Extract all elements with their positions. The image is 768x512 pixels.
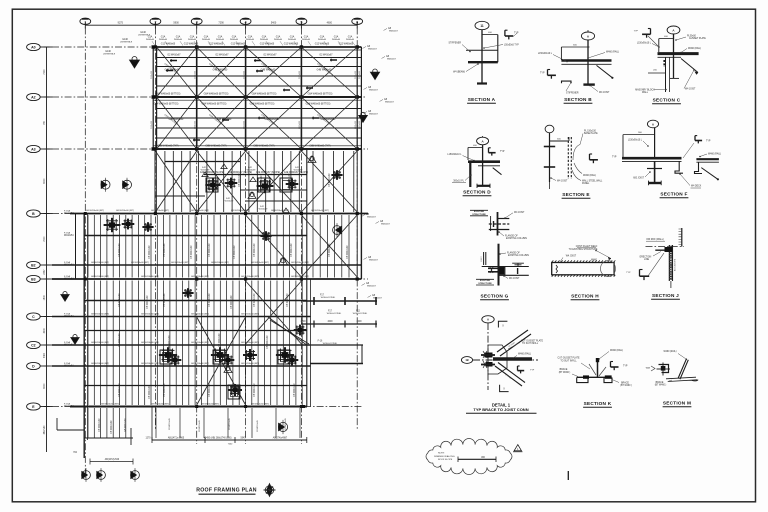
svg-text:A2: A2: [31, 95, 36, 99]
svg-text:7000: 7000: [44, 69, 46, 75]
svg-text:ERECTION: ERECTION: [640, 257, 652, 259]
svg-text:C350x300: C350x300: [355, 71, 357, 79]
svg-text:G2 W410x67: G2 W410x67: [319, 54, 333, 56]
svg-text:W460x67: W460x67: [373, 298, 383, 300]
svg-text:Q450 (AB) 268x2740 (300): Q450 (AB) 268x2740 (300): [204, 437, 231, 440]
svg-text:G8 W410x60 (B/T): G8 W410x60 (B/T): [101, 404, 120, 406]
svg-text:G1A: G1A: [320, 36, 325, 39]
svg-text:7290: 7290: [218, 21, 224, 24]
svg-text:BRACE: BRACE: [560, 368, 568, 371]
svg-text:F8 W310x39: F8 W310x39: [149, 245, 151, 259]
svg-text:G8 W410x60 (B/T): G8 W410x60 (B/T): [291, 262, 310, 264]
svg-text:5943: 5943: [240, 438, 246, 440]
svg-text:W460x60: W460x60: [246, 39, 254, 41]
svg-text:F8 W310x39: F8 W310x39: [164, 243, 166, 257]
svg-text:F8 W310x39: F8 W310x39: [149, 385, 151, 399]
svg-text:G8A W460x60 (B/TTOS): G8A W460x60 (B/TTOS): [202, 103, 227, 106]
svg-text:F8 W310x39: F8 W310x39: [239, 173, 241, 187]
svg-text:EXISTING COLUMN: EXISTING COLUMN: [508, 255, 529, 257]
svg-text:F-15A: F-15A: [64, 209, 70, 212]
svg-text:W410x54: W410x54: [64, 344, 74, 346]
svg-text:F8 W310x39: F8 W310x39: [254, 243, 256, 257]
svg-text:G8 W410x60 (B/T): G8 W410x60 (B/T): [251, 262, 270, 264]
svg-text:F8 W310x39: F8 W310x39: [219, 333, 221, 347]
svg-text:W460x60: W460x60: [216, 39, 224, 41]
svg-text:SECTION A: SECTION A: [468, 97, 496, 102]
svg-text:G8A W460x60 (B/TTOS): G8A W460x60 (B/TTOS): [308, 93, 333, 96]
svg-text:CUT GUSSET PLATE: CUT GUSSET PLATE: [557, 357, 580, 360]
svg-text:LINE: LINE: [644, 259, 650, 261]
svg-text:F8 W310x39: F8 W310x39: [231, 295, 233, 309]
svg-text:F-16: F-16: [318, 341, 323, 343]
svg-text:F8 W310x39: F8 W310x39: [234, 245, 236, 259]
svg-text:G8 W410x60 (B/T): G8 W410x60 (B/T): [91, 314, 110, 316]
svg-text:W460x60: W460x60: [274, 39, 282, 41]
svg-text:W460x67: W460x67: [381, 224, 391, 226]
svg-text:SECTION J: SECTION J: [652, 293, 679, 298]
svg-text:W460x67: W460x67: [369, 260, 379, 262]
svg-text:1270: 1270: [145, 438, 151, 440]
svg-text:SECTION H: SECTION H: [571, 294, 599, 299]
svg-text:W460x67: W460x67: [367, 217, 377, 219]
svg-text:W460 (RAIL): W460 (RAIL): [708, 153, 721, 156]
svg-text:F8 W310x39: F8 W310x39: [329, 173, 331, 187]
svg-text:W460x60: W460x60: [188, 39, 196, 41]
svg-text:AB(1471)x 5965: AB(1471)x 5965: [168, 437, 185, 440]
svg-text:AB(1072)x540: AB(1072)x540: [105, 458, 120, 461]
svg-text:L/STEETBLE: L/STEETBLE: [120, 42, 133, 44]
svg-text:F8 W310x39: F8 W310x39: [257, 419, 259, 431]
svg-text:C350x300: C350x300: [359, 71, 361, 79]
svg-text:TYP: TYP: [646, 368, 651, 370]
svg-text:TYP: TYP: [612, 157, 617, 159]
svg-text:F8 W310x39: F8 W310x39: [239, 385, 241, 399]
svg-text:9275: 9275: [118, 21, 124, 24]
svg-text:6000: 6000: [44, 178, 46, 184]
svg-text:SECTION F: SECTION F: [660, 192, 687, 197]
svg-text:B2: B2: [31, 263, 36, 267]
svg-text:TYP: TYP: [626, 272, 631, 274]
svg-text:W460 (RAIL): W460 (RAIL): [583, 174, 596, 177]
svg-text:W410x54 STEEL: W410x54 STEEL: [353, 313, 368, 315]
svg-text:F8 W310x39: F8 W310x39: [209, 293, 211, 307]
svg-text:G4B W460x60: G4B W460x60: [317, 69, 332, 71]
svg-text:W410x54: W410x54: [64, 316, 74, 318]
svg-text:G1A: G1A: [334, 36, 339, 39]
svg-text:G12 W460x60: G12 W460x60: [161, 44, 176, 46]
svg-text:(BT W460 ): (BT W460 ): [655, 385, 667, 387]
svg-text:A3: A3: [31, 147, 36, 151]
svg-text:F8 W310x39: F8 W310x39: [119, 333, 121, 347]
svg-text:SECTION E: SECTION E: [562, 192, 590, 197]
svg-text:W4 JOIST: W4 JOIST: [509, 278, 520, 280]
svg-text:G8A W460x60 (B/TTOS): G8A W460x60 (B/TTOS): [154, 103, 179, 106]
svg-text:W460x60: W460x60: [260, 39, 268, 41]
svg-text:W410x39: W410x39: [259, 209, 269, 211]
svg-text:G8B W460x60 (TYP): G8B W460x60 (TYP): [309, 146, 330, 148]
svg-text:G1A: G1A: [290, 36, 295, 39]
svg-text:G8A W460x60 (B/TTOS): G8A W460x60 (B/TTOS): [252, 93, 277, 96]
svg-text:F8 W310x39: F8 W310x39: [164, 383, 166, 397]
svg-text:G8 W410x60 (B/T): G8 W410x60 (B/T): [251, 404, 270, 406]
svg-text:G12 W460x60: G12 W460x60: [315, 44, 330, 46]
svg-text:F8 W310x39: F8 W310x39: [267, 335, 269, 349]
svg-text:F8 W310x39: F8 W310x39: [289, 173, 291, 187]
svg-text:W4 JOIST: W4 JOIST: [599, 92, 610, 94]
svg-text:SECTION G: SECTION G: [480, 294, 508, 299]
svg-text:GUSSET PLATE: GUSSET PLATE: [689, 37, 706, 40]
svg-text:C350x300: C350x300: [195, 121, 197, 129]
svg-text:G4E W460x67 (SLOPE): G4E W460x67 (SLOPE): [256, 172, 281, 174]
svg-text:C350x300: C350x300: [299, 71, 301, 79]
svg-text:G4B W460x60: G4B W460x60: [265, 119, 280, 121]
svg-text:G1A: G1A: [248, 36, 253, 39]
svg-text:G1A: G1A: [176, 36, 181, 39]
svg-text:F-15A: F-15A: [64, 312, 70, 315]
svg-text:F8 W310x39: F8 W310x39: [229, 417, 231, 429]
svg-text:BASE PLATE: BASE PLATE: [584, 132, 598, 135]
svg-text:G8A W460x60 (B/TTOS): G8A W460x60 (B/TTOS): [306, 103, 331, 106]
svg-text:TYP: TYP: [514, 33, 519, 35]
svg-text:C350x300: C350x300: [243, 71, 245, 79]
svg-text:G4B W460x60: G4B W460x60: [213, 69, 228, 71]
svg-text:C350x300: C350x300: [151, 121, 153, 129]
svg-text:G8 W410x60 (B/T): G8 W410x60 (B/T): [151, 404, 170, 406]
svg-text:F8 W310x39: F8 W310x39: [164, 293, 166, 307]
svg-text:G8 W410x60 (B/T): G8 W410x60 (B/T): [191, 276, 210, 278]
svg-text:W4 JOIST: W4 JOIST: [557, 181, 568, 183]
svg-text:W410x39: W410x39: [294, 170, 304, 172]
svg-text:SECTION D: SECTION D: [463, 190, 491, 195]
svg-text:G8 W410x60 (B/T): G8 W410x60 (B/T): [191, 342, 210, 344]
svg-text:BRACE: BRACE: [656, 381, 664, 384]
svg-text:G8A W460x60 (B/TTOS): G8A W460x60 (B/TTOS): [204, 93, 229, 96]
svg-text:F8 W310x39: F8 W310x39: [291, 243, 293, 257]
svg-text:C350x300: C350x300: [359, 121, 361, 129]
svg-text:BRACE: BRACE: [621, 381, 629, 384]
svg-text:G8B W460x60 (TYP): G8B W460x60 (TYP): [205, 146, 226, 148]
svg-text:G1A: G1A: [218, 36, 223, 39]
svg-text:G8 W410x60 (B/T): G8 W410x60 (B/T): [171, 262, 190, 264]
svg-text:G8 W410x60 (B/T): G8 W410x60 (B/T): [191, 210, 210, 212]
svg-text:FLANGE OF: FLANGE OF: [507, 252, 520, 255]
svg-text:L150x90x10 L: L150x90x10 L: [538, 53, 553, 55]
svg-text:C2: C2: [31, 343, 36, 347]
svg-text:TYP: TYP: [634, 31, 639, 33]
svg-text:G8A W460x60 (B/TTOS): G8A W460x60 (B/TTOS): [156, 93, 181, 96]
svg-text:W460x67: W460x67: [369, 114, 379, 116]
svg-text:SECTION M: SECTION M: [663, 401, 691, 406]
svg-text:TO EXISTING STRUCTURE: TO EXISTING STRUCTURE: [569, 249, 598, 251]
svg-text:(BT W460 ): (BT W460 ): [559, 372, 571, 374]
svg-text:W4 JOIST: W4 JOIST: [514, 212, 525, 214]
svg-text:SECTION K: SECTION K: [584, 401, 612, 406]
svg-text:4000: 4000: [44, 328, 46, 334]
svg-text:G2 W410x67: G2 W410x67: [263, 54, 277, 56]
svg-text:F8 W310x39: F8 W310x39: [254, 383, 256, 397]
svg-text:G1A: G1A: [276, 36, 281, 39]
svg-text:TYP: TYP: [540, 73, 545, 75]
svg-text:G8 W410x60 (B/T): G8 W410x60 (B/T): [191, 314, 210, 316]
svg-text:7000: 7000: [44, 236, 46, 242]
svg-text:ROOF SLOPE: ROOF SLOPE: [438, 459, 453, 461]
svg-text:SECTION C: SECTION C: [653, 98, 681, 103]
svg-text:TYP BRACE TO JOIST CONN: TYP BRACE TO JOIST CONN: [473, 407, 528, 412]
svg-text:W460x60: W460x60: [174, 39, 182, 41]
svg-text:4897x40: 4897x40: [44, 425, 46, 435]
svg-text:5900: 5900: [173, 21, 179, 24]
svg-text:EXISTING COLUMN: EXISTING COLUMN: [506, 238, 527, 240]
svg-text:G8 W410x60 (B/T): G8 W410x60 (B/T): [231, 210, 250, 212]
svg-text:F-15A: F-15A: [64, 362, 70, 365]
svg-text:W460 (RAIL): W460 (RAIL): [518, 353, 531, 356]
svg-text:G12 W460x60: G12 W460x60: [260, 44, 275, 46]
svg-text:F8 W310x39: F8 W310x39: [261, 175, 263, 189]
svg-text:G4B W460x60: G4B W460x60: [165, 69, 180, 71]
svg-text:G4B W460x60: G4B W460x60: [169, 119, 184, 121]
svg-text:5400: 5400: [271, 21, 277, 24]
svg-text:F8 W310x39: F8 W310x39: [294, 383, 296, 397]
svg-text:W460x67: W460x67: [385, 102, 395, 104]
svg-text:G4B W460x60: G4B W460x60: [321, 119, 336, 121]
svg-text:G8 W410x60 (B/T): G8 W410x60 (B/T): [91, 262, 110, 264]
svg-text:STIFFENER: STIFFENER: [566, 93, 579, 95]
svg-text:W4 JOIST: W4 JOIST: [685, 89, 696, 91]
svg-text:G8 W410x60 (B/T): G8 W410x60 (B/T): [141, 276, 160, 278]
svg-text:C350x300: C350x300: [151, 71, 153, 79]
svg-text:2367: 2367: [44, 269, 46, 275]
svg-text:L/STEETBLE: L/STEETBLE: [138, 35, 151, 37]
svg-text:EXIST: EXIST: [481, 256, 483, 262]
svg-text:F8 W310x39: F8 W310x39: [169, 335, 171, 349]
svg-text:W460x60: W460x60: [146, 39, 154, 41]
svg-text:G2 W410x67: G2 W410x67: [167, 54, 181, 56]
svg-text:G8 W410x60 (B/T): G8 W410x60 (B/T): [91, 363, 110, 365]
svg-text:F-15A: F-15A: [64, 275, 70, 278]
svg-text:F8 W310x39: F8 W310x39: [119, 293, 121, 307]
svg-text:W410x54: W410x54: [64, 365, 74, 367]
svg-text:F8 W310x39: F8 W310x39: [119, 243, 121, 257]
svg-text:WALL: WALL: [642, 91, 649, 94]
svg-text:G8A W460x60 (B/TTOS): G8A W460x60 (B/TTOS): [250, 103, 275, 106]
svg-text:G8 W410x60 (B/T): G8 W410x60 (B/T): [241, 342, 260, 344]
svg-text:G4B W460x60: G4B W460x60: [217, 119, 232, 121]
svg-text:11: 11: [480, 24, 484, 28]
svg-text:W460 (RAIL): W460 (RAIL): [688, 47, 701, 50]
svg-text:W410x39: W410x39: [201, 170, 211, 172]
svg-text:W460x67: W460x67: [387, 59, 397, 61]
svg-text:F8 W310x39: F8 W310x39: [209, 243, 211, 257]
svg-text:G8 W410x60 (B/T): G8 W410x60 (B/T): [201, 404, 220, 406]
svg-text:W410x54: W410x54: [64, 213, 74, 215]
svg-text:DIMENSION ALONG: DIMENSION ALONG: [434, 455, 455, 458]
svg-text:TYP: TYP: [530, 370, 535, 372]
svg-text:600 JOIST: 600 JOIST: [633, 177, 644, 179]
svg-text:G2 W410x67: G2 W410x67: [215, 54, 229, 56]
svg-text:G8B W460x60 (TYP): G8B W460x60 (TYP): [253, 146, 274, 148]
svg-text:4000: 4000: [327, 321, 333, 323]
svg-text:4000: 4000: [356, 321, 362, 323]
svg-text:AB(274)x4987: AB(274)x4987: [273, 437, 288, 440]
svg-text:G1A: G1A: [232, 36, 237, 39]
svg-text:G12 W460x60: G12 W460x60: [339, 44, 354, 46]
svg-text:F8 W310x39: F8 W310x39: [191, 245, 193, 259]
svg-text:G8 W410x60 (B/T): G8 W410x60 (B/T): [241, 363, 260, 365]
svg-text:L150x90x10 L: L150x90x10 L: [628, 140, 643, 142]
svg-text:F8 W310x39: F8 W310x39: [199, 419, 201, 431]
svg-text:G1A: G1A: [304, 36, 309, 39]
svg-text:PANEL: PANEL: [582, 182, 590, 185]
svg-text:C350x300: C350x300: [299, 121, 301, 129]
svg-text:TO SUIT INFILL: TO SUIT INFILL: [522, 343, 539, 345]
svg-text:G8 W410x60 (B/T): G8 W410x60 (B/T): [271, 210, 290, 212]
svg-text:G8 W410x60 (B/T): G8 W410x60 (B/T): [141, 314, 160, 316]
svg-text:ROOF FRAMING PLAN: ROOF FRAMING PLAN: [196, 488, 256, 494]
svg-text:G8 W410x60 (B/T): G8 W410x60 (B/T): [131, 262, 150, 264]
svg-text:G8 W410x60 (B/T): G8 W410x60 (B/T): [86, 210, 105, 212]
svg-text:FLANGE OF: FLANGE OF: [505, 235, 518, 238]
svg-text:W460x60: W460x60: [318, 39, 326, 41]
svg-text:G4B W460x60: G4B W460x60: [261, 69, 276, 71]
svg-text:L150x90x10 L: L150x90x10 L: [637, 43, 652, 45]
svg-text:F8 W310x39: F8 W310x39: [285, 417, 287, 429]
svg-text:STRUCTURE: STRUCTURE: [478, 283, 492, 285]
svg-text:W460x60: W460x60: [230, 39, 238, 41]
svg-text:F8 W310x39: F8 W310x39: [329, 243, 331, 257]
svg-text:PL 150x150: PL 150x150: [584, 131, 597, 133]
svg-text:W410x54: W410x54: [64, 264, 74, 266]
svg-text:W460x60: W460x60: [288, 39, 296, 41]
svg-text:3400: 3400: [44, 352, 46, 358]
svg-text:G1A: G1A: [190, 36, 195, 39]
svg-text:W410x54: W410x54: [64, 235, 74, 237]
svg-text:W4 DECK: W4 DECK: [691, 186, 702, 188]
svg-text:4700: 4700: [300, 321, 306, 323]
svg-text:W460x67: W460x67: [367, 286, 377, 288]
svg-text:EXISTING: EXISTING: [480, 280, 491, 282]
svg-text:TYP: TYP: [623, 366, 628, 368]
svg-text:W410x39: W410x39: [225, 201, 235, 203]
svg-text:F8 W310x39: F8 W310x39: [254, 293, 256, 307]
svg-text:F8 W310x39: F8 W310x39: [169, 417, 171, 429]
svg-text:G1A: G1A: [262, 36, 267, 39]
svg-text:BLOCKWORK: BLOCKWORK: [675, 258, 677, 271]
svg-text:W460x67: W460x67: [368, 49, 378, 51]
svg-text:L150x90x10 L: L150x90x10 L: [447, 154, 462, 156]
svg-text:F8 W310x39: F8 W310x39: [147, 295, 149, 309]
svg-text:C350x300: C350x300: [355, 121, 357, 129]
svg-text:WALL STEEL WALL: WALL STEEL WALL: [582, 180, 603, 183]
svg-text:F8 W310x39: F8 W310x39: [99, 418, 101, 432]
svg-text:L/STEETBLE: L/STEETBLE: [103, 54, 116, 56]
svg-text:W410x54: W410x54: [64, 278, 74, 280]
svg-text:W4 (BEAM): W4 (BEAM): [453, 71, 465, 74]
svg-text:G8 W410x60 (B/T): G8 W410x60 (B/T): [151, 210, 170, 212]
svg-text:PL50x50: PL50x50: [687, 36, 697, 38]
svg-text:4600: 4600: [327, 21, 333, 24]
svg-text:W460 (RAIL): W460 (RAIL): [610, 349, 623, 352]
svg-text:1800: 1800: [44, 295, 46, 301]
svg-text:L50x50x5 TYP: L50x50x5 TYP: [504, 45, 519, 47]
svg-text:TYP: TYP: [500, 151, 505, 153]
svg-text:W460x60: W460x60: [159, 39, 167, 41]
svg-text:1B: 1B: [465, 358, 468, 362]
svg-text:G8 W410x60 (B/T): G8 W410x60 (B/T): [241, 276, 260, 278]
svg-text:G8 W410x60 (B/T): G8 W410x60 (B/T): [211, 262, 230, 264]
svg-text:G1A: G1A: [348, 36, 353, 39]
svg-text:F8 W310x39: F8 W310x39: [111, 420, 113, 434]
svg-text:G1A: G1A: [161, 36, 166, 39]
svg-text:A: A: [487, 318, 489, 322]
svg-text:G8 W410x60 (B/T): G8 W410x60 (B/T): [116, 210, 135, 212]
svg-text:W460x60: W460x60: [346, 39, 354, 41]
svg-text:G8 W410x60 (B/T): G8 W410x60 (B/T): [141, 363, 160, 365]
svg-text:W460x60: W460x60: [332, 39, 340, 41]
svg-text:CONT FILLET WELD: CONT FILLET WELD: [576, 246, 598, 248]
svg-text:G1A: G1A: [204, 36, 209, 39]
svg-text:F-15A: F-15A: [64, 261, 70, 264]
svg-text:W460x60: W460x60: [202, 39, 210, 41]
svg-text:W4 JOIST: W4 JOIST: [566, 256, 577, 258]
svg-text:G8 W410x60 (B/T): G8 W410x60 (B/T): [141, 342, 160, 344]
svg-text:F8 W310x39: F8 W310x39: [287, 293, 289, 307]
svg-text:F8 W310x39: F8 W310x39: [119, 383, 121, 397]
svg-text:W410x39: W410x39: [247, 170, 257, 172]
svg-text:G8 W410x60 (B/T): G8 W410x60 (B/T): [191, 363, 210, 365]
svg-text:G8 W410x60 (B/T): G8 W410x60 (B/T): [91, 342, 110, 344]
svg-text:W410x54 STEEL: W410x54 STEEL: [321, 297, 336, 299]
svg-text:CUT GUSSET PLATE: CUT GUSSET PLATE: [521, 340, 544, 343]
svg-text:G8 W410x60 (B/T): G8 W410x60 (B/T): [91, 276, 110, 278]
svg-text:W460 (RAIL): W460 (RAIL): [663, 350, 676, 353]
svg-text:F8 W310x39: F8 W310x39: [125, 418, 127, 432]
svg-text:STIFFENER: STIFFENER: [448, 43, 461, 45]
svg-text:6000: 6000: [44, 383, 46, 389]
svg-text:F8 W310x39: F8 W310x39: [209, 383, 211, 397]
svg-text:G8B W460x60 (TYP): G8B W460x60 (TYP): [157, 146, 178, 148]
svg-text:B3: B3: [31, 277, 36, 281]
svg-text:G8 W410x60 (B/T): G8 W410x60 (B/T): [291, 276, 310, 278]
svg-text:G12 W460x60: G12 W460x60: [209, 44, 224, 46]
svg-text:F-15A: F-15A: [64, 402, 70, 405]
svg-text:G8 W410x60 (B/T): G8 W410x60 (B/T): [311, 210, 330, 212]
svg-text:W410x54 STEEL: W410x54 STEEL: [327, 313, 342, 315]
svg-text:F-15A: F-15A: [64, 341, 70, 344]
svg-text:SECTION B: SECTION B: [564, 97, 592, 102]
svg-text:EXISTING: EXISTING: [474, 211, 485, 213]
svg-text:W460: W460: [591, 259, 598, 261]
svg-text:W460 (RAIL): W460 (RAIL): [606, 51, 619, 54]
svg-text:A0: A0: [31, 45, 36, 49]
svg-text:F8 W310x39: F8 W310x39: [347, 245, 349, 259]
svg-text:F-15A: F-15A: [64, 231, 70, 234]
svg-text:W460x60: W460x60: [302, 39, 310, 41]
svg-text:G8 W410x60 (B/T): G8 W410x60 (B/T): [241, 314, 260, 316]
svg-text:W460x67: W460x67: [389, 31, 399, 33]
svg-text:W460x67: W460x67: [369, 90, 379, 92]
svg-text:ORI ROF (WALL): ORI ROF (WALL): [646, 238, 664, 241]
svg-text:NOTE:: NOTE:: [438, 453, 445, 455]
svg-text:G4E W460x67 (SLOPE): G4E W460x67 (SLOPE): [284, 172, 309, 174]
svg-text:(BT W460 ): (BT W460 ): [620, 385, 632, 387]
svg-text:C350x300: C350x300: [243, 121, 245, 129]
svg-text:W410x54: W410x54: [64, 406, 74, 408]
svg-text:TYP: TYP: [706, 141, 711, 143]
svg-text:W410x54 STEEL: W410x54 STEEL: [323, 343, 338, 345]
svg-text:C350x300: C350x300: [195, 71, 197, 79]
svg-text:TO SUIT INFILL: TO SUIT INFILL: [560, 360, 577, 362]
